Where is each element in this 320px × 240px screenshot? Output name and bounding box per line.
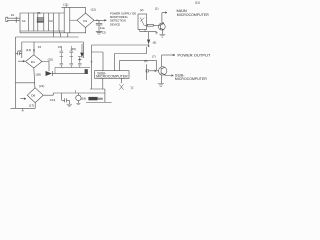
svg-text:(21): (21) (195, 0, 200, 4)
svg-text:C1: C1 (22, 19, 26, 23)
svg-text:MICROCOMPUTER: MICROCOMPUTER (177, 13, 209, 17)
svg-text:D4: D4 (31, 60, 35, 64)
svg-text:(12): (12) (91, 8, 96, 12)
svg-text:DEVICE: DEVICE (110, 22, 120, 26)
svg-text:(7): (7) (152, 54, 156, 58)
svg-text:C3: C3 (17, 49, 21, 53)
svg-text:POWER SUPPLY DE: POWER SUPPLY DE (110, 12, 136, 16)
svg-text:(15): (15) (71, 47, 76, 51)
svg-text:MICROCOMPUTER: MICROCOMPUTER (175, 77, 207, 81)
svg-text:(11): (11) (63, 2, 68, 6)
svg-text:T1: T1 (37, 11, 41, 15)
svg-text:10: 10 (11, 13, 15, 17)
svg-text:(14): (14) (26, 48, 31, 52)
svg-text:(2): (2) (140, 8, 144, 12)
svg-text:C6: C6 (58, 45, 62, 49)
svg-text:DETECTION: DETECTION (110, 19, 126, 23)
svg-text:C5: C5 (102, 31, 106, 35)
svg-text:(18): (18) (36, 72, 41, 76)
svg-text:C2: C2 (49, 19, 53, 23)
svg-text:15: 15 (38, 45, 42, 49)
svg-text:(15): (15) (48, 58, 53, 62)
svg-text:11a: 11a (100, 26, 105, 30)
svg-text:MICROCOMPUTER: MICROCOMPUTER (96, 75, 128, 79)
svg-text:D1: D1 (83, 19, 87, 23)
svg-text:(6): (6) (153, 41, 157, 45)
svg-text:POWER OUTPUT: POWER OUTPUT (178, 52, 211, 57)
svg-text:(1): (1) (155, 6, 159, 10)
svg-text:(5): (5) (144, 59, 148, 63)
svg-text:(16): (16) (81, 96, 86, 100)
svg-text:(21): (21) (39, 84, 44, 88)
svg-text:MONITORING: MONITORING (110, 15, 128, 19)
svg-text:D6: D6 (31, 94, 35, 98)
svg-text:(17): (17) (29, 103, 34, 107)
svg-text:C14: C14 (50, 98, 56, 102)
